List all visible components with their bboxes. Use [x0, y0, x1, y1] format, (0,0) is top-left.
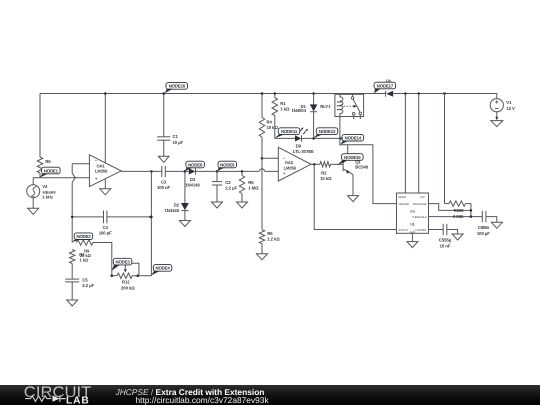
svg-text:1 kHz: 1 kHz [42, 195, 53, 200]
svg-text:NODE3: NODE3 [115, 259, 130, 264]
svg-text:D3: D3 [190, 177, 196, 182]
svg-text:NODE11: NODE11 [281, 129, 298, 134]
svg-text:LM358: LM358 [284, 165, 297, 170]
svg-text:OA2: OA2 [285, 160, 294, 165]
svg-text:10 kΩ: 10 kΩ [267, 125, 279, 130]
svg-text:U1: U1 [410, 223, 414, 227]
svg-text:R8: R8 [45, 159, 51, 164]
svg-text:C5: C5 [82, 277, 88, 282]
svg-text:NODE8: NODE8 [188, 162, 203, 167]
svg-text:LAB: LAB [66, 395, 90, 405]
svg-text:BC548: BC548 [355, 165, 369, 170]
svg-text:NODE9: NODE9 [220, 162, 235, 167]
svg-text:TRIGGER: TRIGGER [398, 203, 409, 206]
svg-text:NODE12: NODE12 [319, 129, 336, 134]
svg-text:LM358: LM358 [95, 169, 108, 174]
svg-text:100 nF: 100 nF [157, 185, 170, 190]
svg-text:200 kΩ: 200 kΩ [121, 285, 135, 290]
svg-text:10 µF: 10 µF [173, 140, 184, 145]
svg-text:http://circuitlab.com/c3v72a87: http://circuitlab.com/c3v72a87ev93k [136, 395, 270, 405]
svg-text:D9: D9 [296, 143, 302, 148]
svg-text:NODE2: NODE2 [76, 234, 91, 239]
svg-text:1 MΩ: 1 MΩ [248, 185, 259, 190]
svg-text:R1: R1 [280, 101, 286, 106]
svg-text:RESET: RESET [398, 196, 406, 199]
svg-text:C555g: C555g [439, 238, 452, 243]
svg-text:10 nF: 10 nF [440, 243, 451, 248]
svg-text:10 kΩ: 10 kΩ [320, 176, 332, 181]
svg-text:+: + [95, 177, 98, 183]
svg-text:C2: C2 [225, 180, 231, 185]
svg-text:100 µF: 100 µF [477, 231, 490, 236]
svg-text:D2: D2 [174, 203, 180, 208]
svg-text:2.2 kΩ: 2.2 kΩ [267, 237, 280, 242]
svg-text:2.2 µF: 2.2 µF [82, 283, 94, 288]
svg-text:2.2 µF: 2.2 µF [225, 185, 237, 190]
svg-text:NODE14: NODE14 [345, 136, 362, 141]
svg-text:1N4148: 1N4148 [164, 208, 179, 213]
svg-text:R2: R2 [321, 171, 327, 176]
svg-text:1 kΩ: 1 kΩ [80, 257, 89, 262]
svg-text:R5: R5 [248, 180, 254, 185]
svg-text:R4: R4 [267, 119, 273, 124]
svg-text:12 V: 12 V [506, 106, 515, 111]
svg-text:CONTROL: CONTROL [415, 229, 427, 232]
svg-text:V1: V1 [506, 100, 512, 105]
svg-text:C4: C4 [103, 225, 109, 230]
svg-text:OUTPUT: OUTPUT [398, 229, 408, 232]
svg-text:R12: R12 [122, 280, 130, 285]
svg-text:1 kΩ: 1 kΩ [280, 107, 290, 112]
svg-text:+: + [283, 171, 286, 177]
svg-text:NODE16: NODE16 [169, 84, 186, 89]
svg-text:1N4148: 1N4148 [185, 182, 200, 187]
svg-text:C3: C3 [161, 180, 167, 185]
svg-text:R555: R555 [454, 208, 465, 213]
svg-text:555: 555 [410, 209, 416, 213]
svg-text:DISCHARGE: DISCHARGE [413, 203, 427, 206]
svg-text:C1: C1 [173, 134, 179, 139]
svg-text:NODE15: NODE15 [344, 155, 361, 160]
svg-text:3 MΩ: 3 MΩ [453, 214, 464, 219]
svg-text:OA1: OA1 [97, 163, 106, 168]
svg-text:100 pF: 100 pF [99, 231, 112, 236]
svg-text:NODE17: NODE17 [377, 83, 394, 88]
svg-text:1N4004: 1N4004 [291, 108, 306, 113]
svg-text:C555t: C555t [478, 225, 490, 230]
svg-text:RLY1: RLY1 [320, 104, 331, 109]
svg-text:LTL-307EE: LTL-307EE [293, 149, 314, 154]
svg-text:NODE1: NODE1 [44, 168, 59, 173]
svg-text:VCC: VCC [420, 196, 425, 199]
svg-text:NODE4: NODE4 [155, 266, 170, 271]
svg-text:THRESHOLD: THRESHOLD [412, 216, 427, 219]
svg-text:R6: R6 [267, 231, 273, 236]
